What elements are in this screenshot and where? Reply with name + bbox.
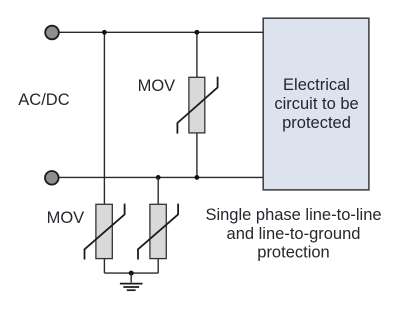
wire: top line L1 from terminal to box (57, 31, 263, 33)
wire: MOV3 top lead from L2 (157, 177, 159, 205)
junction dot: L1 / left vertical (102, 30, 107, 35)
wire: MOV1 bottom lead (196, 133, 198, 178)
junction dot: L2 / MOV3 lead (156, 175, 161, 180)
wire: MOV2 bottom lead (103, 259, 105, 274)
junction dot: ground bus / ground stub (129, 271, 134, 276)
svg-text:AC/DC: AC/DC (18, 91, 69, 109)
wire: ground stub (130, 273, 132, 282)
varistor RV2 (left line-to-ground MOV) (85, 204, 125, 260)
wire: MOV1 top lead (196, 32, 198, 78)
svg-text:and line-to-ground: and line-to-ground (227, 225, 361, 243)
caption: Single phase line-to-line and line-to-ground protection (205, 206, 381, 261)
wire: MOV3 bottom lead (157, 259, 159, 274)
box label: Electrical circuit to be protected (274, 76, 358, 132)
terminal: bottom input (45, 171, 59, 185)
varistor RV1 (line-to-line MOV) (177, 77, 217, 134)
svg-text:protection: protection (257, 244, 329, 262)
svg-text:MOV: MOV (47, 209, 85, 227)
junction dot: L2 / MOV1 bottom (195, 175, 200, 180)
svg-text:protected: protected (282, 114, 351, 132)
wire: ground bus (104, 272, 158, 274)
terminal: top input (45, 26, 59, 40)
svg-text:Single phase line-to-line: Single phase line-to-line (205, 206, 381, 224)
ground symbol (120, 284, 143, 291)
wire: bottom line L2 from terminal to box (57, 176, 263, 178)
svg-text:MOV: MOV (138, 77, 176, 95)
svg-text:circuit to be: circuit to be (274, 95, 358, 113)
wire: left vertical from L1 down to MOV2 (crosses L2 without junction) (103, 32, 105, 205)
varistor RV3 (right line-to-ground MOV) (138, 204, 178, 260)
junction dot: L1 / MOV1 top (195, 30, 200, 35)
svg-text:Electrical: Electrical (283, 76, 350, 94)
box: electrical circuit to be protected (263, 18, 369, 190)
